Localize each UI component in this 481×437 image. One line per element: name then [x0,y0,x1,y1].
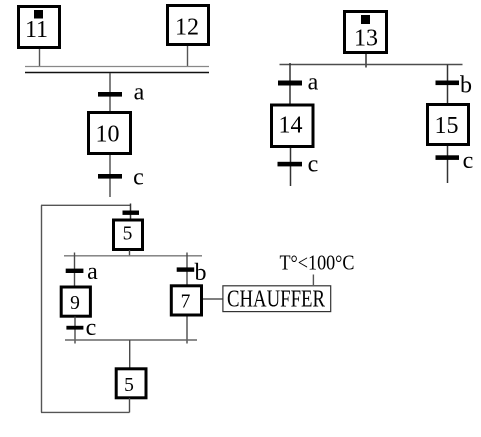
svg-text:7: 7 [181,292,191,313]
step 12 box [168,6,209,45]
transition b label (right chart) [460,73,472,99]
wire from step 9 down through transition c to convergence rail [74,317,76,344]
svg-text:a: a [134,80,145,106]
transition a label (right chart) [308,70,319,96]
wire right branch rail to step 15 [447,65,449,104]
step 9 label [70,293,80,314]
svg-text:14: 14 [279,113,303,139]
transition a label (left chart) [134,80,145,106]
transition c label (below step 14) [308,152,319,178]
step 9 box [61,287,90,316]
step 10 label [96,122,120,148]
transition c label (left chart) [133,165,144,191]
step 12 label [175,15,199,41]
transition c tick (below step 15) [436,155,460,160]
svg-text:c: c [86,315,97,341]
wire trunk from rail to step 10 [109,73,111,112]
svg-text:T°<100°C: T°<100°C [280,251,355,275]
svg-text:9: 9 [70,293,80,314]
transition b tick (bottom chart) [177,267,195,271]
wire from convergence rail to step 5 (bottom) [129,340,131,368]
wire left branch rail to step 14 [289,63,291,104]
OR convergence rail (bottom chart) [65,339,197,341]
action label CHAUFFER [227,287,325,313]
feedback loop bottom horizontal wire [41,411,130,413]
feedback loop top horizontal wire [41,204,131,206]
action box CHAUFFER [223,286,331,312]
svg-text:c: c [133,165,144,191]
svg-text:10: 10 [96,122,120,148]
AND convergence double rail (upper gray line) [25,66,209,68]
svg-text:12: 12 [175,15,199,41]
transition c label (below step 15) [463,148,474,174]
step 7 box [171,286,201,315]
step 15 label [435,113,459,139]
step 11 label [25,17,48,43]
step 14 box [272,105,314,147]
condition link wire [312,275,314,286]
step 7 label [181,292,191,313]
OR divergence rail (right chart) [280,64,463,66]
wire from step 10 down through transition c [109,155,111,197]
step 5 label (top) [123,224,133,245]
wire from step 5 (bottom) to feedback loop [129,398,131,412]
action link wire from step 7 to action box [203,298,223,300]
step 13 box [345,12,387,53]
wire from step 11 down to AND-rail [39,49,41,67]
step 14 label [279,113,303,139]
step 15 box [428,105,469,145]
step 5 box (top) [114,220,143,250]
OR divergence rail (bottom chart) [64,255,202,257]
step 13 active token [361,15,370,24]
svg-text:5: 5 [123,224,133,245]
wire from step 15 down through transition c [447,146,449,183]
wire from step 13 to OR-divergence rail [365,54,367,68]
transition tick above step 5 (top) [123,211,140,215]
wire right branch to step 7 [186,253,188,286]
step 11 box [19,7,60,48]
step 5 label (bottom) [124,375,134,396]
AND convergence double rail (lower black line) [25,72,209,74]
svg-text:CHAUFFER: CHAUFFER [227,287,325,313]
svg-text:13: 13 [354,26,378,52]
transition a label (bottom chart) [87,259,98,285]
wire left branch to step 9 [74,253,76,288]
svg-text:15: 15 [435,113,459,139]
transition c tick (bottom chart) [66,326,83,330]
svg-text:a: a [308,70,319,96]
transition b tick (right chart) [436,81,460,86]
wire from step 7 down to convergence rail [186,317,188,344]
svg-text:a: a [87,259,98,285]
svg-text:c: c [308,152,319,178]
svg-text:5: 5 [124,375,134,396]
feedback loop left vertical wire [41,205,43,412]
wire from step 5 to OR-divergence rail (bottom chart) [129,250,131,256]
condition label T&lt;100 [280,251,355,275]
step 11 active token [34,10,43,19]
svg-text:c: c [463,148,474,174]
svg-text:b: b [195,260,207,286]
wire from step 14 down through transition c [290,148,292,186]
transition a tick (left chart) [98,92,122,97]
step 13 label [354,26,378,52]
wire from step 12 down to AND-rail [187,46,189,67]
transition c label (bottom chart) [86,315,97,341]
transition a tick (right chart) [278,81,302,86]
step 10 box [89,113,131,154]
transition b label (bottom chart) [195,260,207,286]
step 5 box (bottom) [116,369,146,398]
svg-text:11: 11 [25,17,48,43]
transition a tick (bottom chart) [66,269,84,273]
transition c tick (below step 14) [278,162,303,167]
svg-text:b: b [460,73,472,99]
wire into top transition of loop [130,204,132,221]
transition c tick (left chart) [98,174,122,179]
